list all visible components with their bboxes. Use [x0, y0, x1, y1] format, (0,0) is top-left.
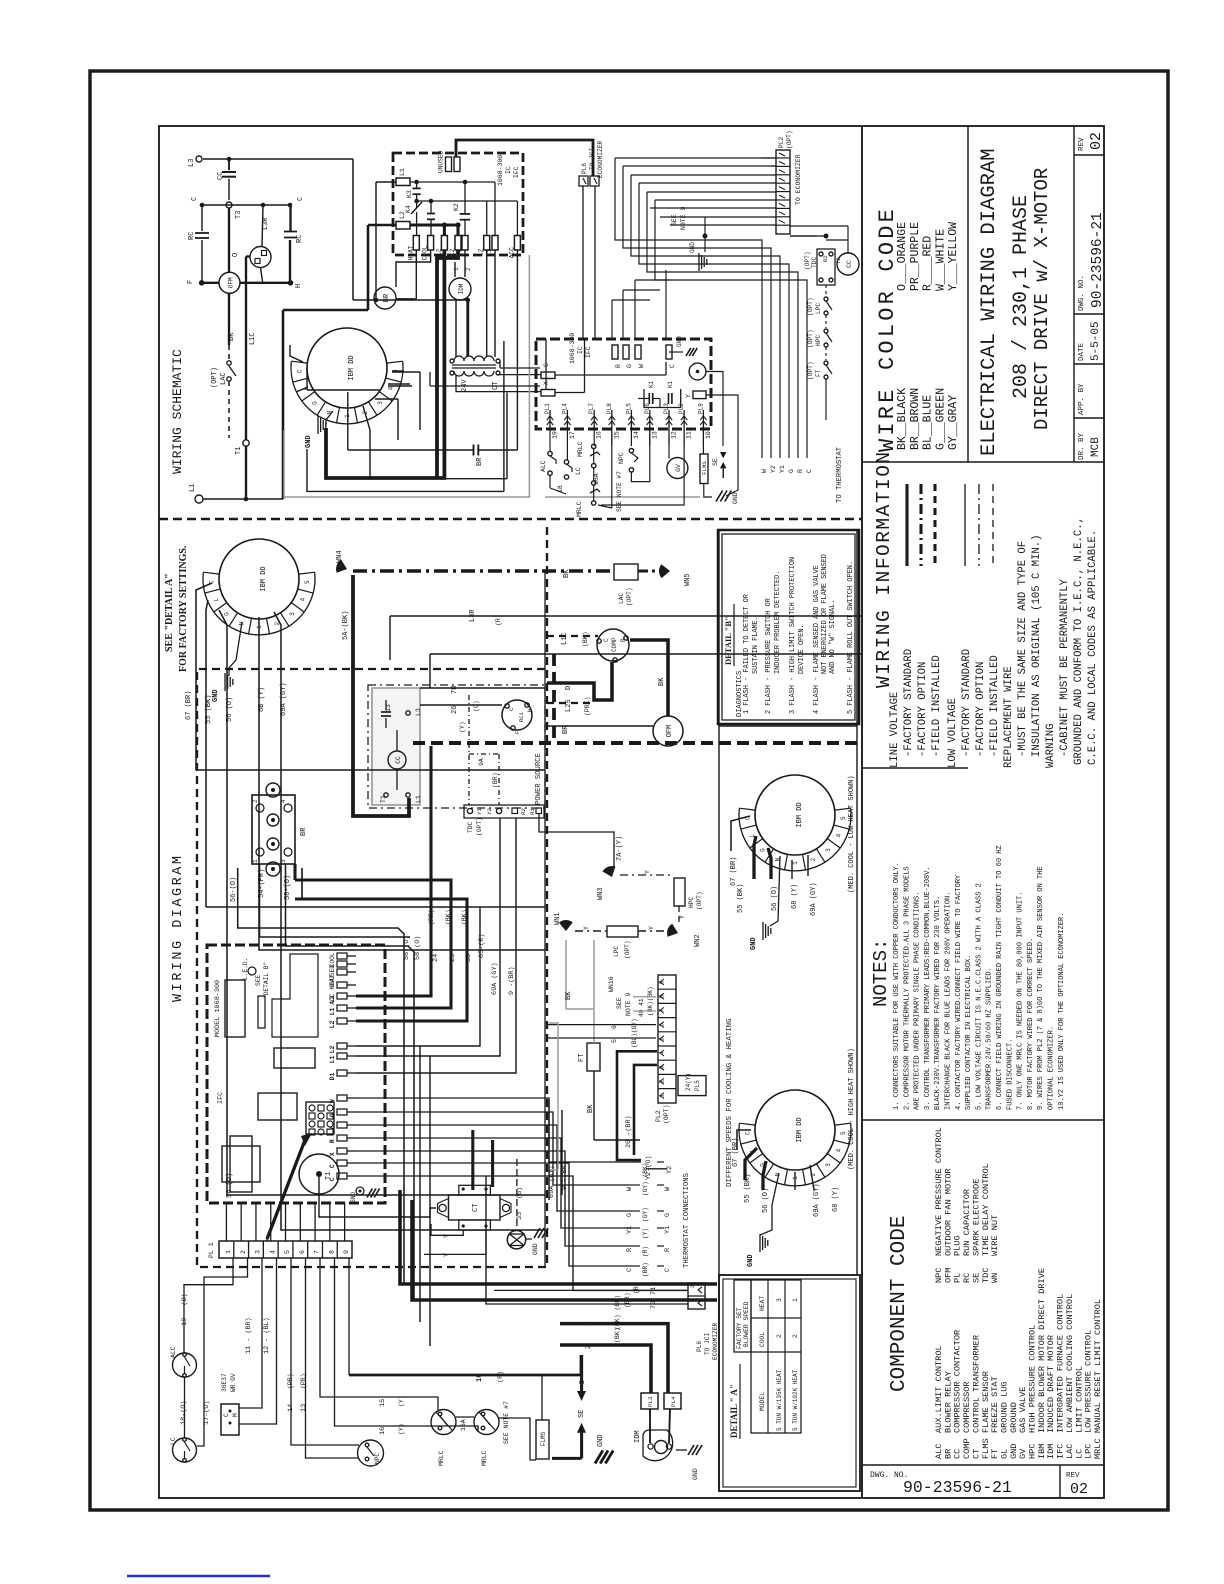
svg-text:W___WHITE: W___WHITE [934, 229, 947, 291]
motor leads (schematic) [290, 345, 303, 362]
svg-text:DWG. NO.: DWG. NO. [1078, 275, 1086, 311]
svg-text:9: 9 [343, 1250, 350, 1254]
plug PL6 TO JCI ECONOMIZER (diagram) [688, 1283, 705, 1309]
svg-text:GND: GND [689, 242, 696, 253]
svg-text:11: 11 [686, 431, 693, 439]
wires 40 41 gray [633, 996, 656, 998]
relay block on board [225, 980, 245, 1037]
legend sample: low voltage field installed [992, 484, 994, 566]
svg-text:WARNING: WARNING [1045, 723, 1057, 768]
wires to IDM [454, 262, 456, 277]
svg-text:L1: L1 [189, 484, 197, 492]
wire 9 from PL1 [348, 1258, 350, 1375]
spark electrode circle [689, 363, 706, 380]
svg-text:(R): (R) [497, 1371, 505, 1383]
svg-text:D1: D1 [329, 1072, 336, 1080]
CT wires Y [431, 1224, 463, 1235]
svg-text:24V: 24V [461, 379, 469, 392]
svg-text:FLMS: FLMS [701, 461, 708, 475]
wire motor row 491 [307, 449, 504, 491]
svg-text:BK: BK [658, 677, 666, 686]
svg-text:(OPT): (OPT) [807, 297, 814, 316]
detail A table grid [751, 1280, 801, 1433]
svg-text:M: M [232, 1413, 239, 1417]
title block: wire color code box divider [967, 126, 969, 462]
svg-text:70: 70 [650, 1301, 658, 1309]
arrow to connector [267, 1140, 305, 1239]
wire (R) run [430, 653, 862, 655]
svg-text:Y___YELLOW: Y___YELLOW [947, 222, 960, 291]
svg-text:FT: FT [578, 1054, 586, 1062]
svg-text:GND: GND [750, 937, 758, 950]
svg-text:X: X [329, 1152, 336, 1156]
svg-text:PL5: PL5 [694, 1080, 701, 1091]
wire to L2 fuse [367, 225, 370, 310]
title block cells: REV [1074, 154, 1104, 156]
dashed wire L2S (PRI) [547, 702, 594, 704]
svg-text:68 (Y): 68 (Y) [832, 1187, 840, 1212]
terminal L1 [195, 495, 203, 503]
wire 67 (BR) [196, 583, 212, 770]
IFC board spade terminal L2 [337, 1018, 347, 1024]
svg-text:BK: BK [565, 991, 573, 1000]
low pressure control LPC (OPT) diagram [575, 930, 607, 932]
svg-text:24: 24 [432, 954, 440, 962]
wire BR to OFM [547, 725, 653, 727]
svg-text:SEE: SEE [616, 997, 623, 1009]
svg-text:G: G [626, 1213, 634, 1217]
svg-text:3 FLASH - HIGH LIMIT SWITCH PR: 3 FLASH - HIGH LIMIT SWITCH PROTECTION [789, 557, 797, 714]
svg-text:GND: GND [532, 1243, 539, 1255]
svg-text:7. ONLY ONE MRLC IS NEEDED ON: 7. ONLY ONE MRLC IS NEEDED ON THE 80,000… [1017, 892, 1025, 1110]
svg-text:MRLC: MRLC [577, 441, 584, 457]
svg-text:5 FLASH - FLAME ROLL OUT SWITC: 5 FLASH - FLAME ROLL OUT SWITCH OPEN. [847, 561, 855, 714]
svg-text:3: 3 [659, 1065, 666, 1069]
svg-text:2: 2 [252, 799, 259, 803]
svg-text:WN: WN [990, 1273, 1000, 1283]
low pressure control LPC (OPT) [825, 285, 827, 296]
svg-text:GY__GRAY: GY__GRAY [947, 395, 960, 450]
svg-text:W: W [638, 364, 645, 368]
board terminal L2 [441, 236, 447, 251]
wires lv board to bottom components [545, 339, 547, 390]
svg-text:54-(PR): 54-(PR) [258, 869, 266, 898]
svg-text:3: 3 [255, 1250, 262, 1254]
svg-text:17-(O): 17-(O) [203, 1401, 211, 1425]
fuse L1 (board) [396, 178, 410, 186]
svg-text:1068-300: 1068-300 [497, 155, 504, 186]
svg-text:(OPT): (OPT) [663, 1104, 670, 1124]
svg-text:L3R: L3R [262, 217, 270, 230]
svg-text:C: C [669, 364, 676, 368]
IFC board spade terminal L2 [337, 993, 347, 999]
svg-text:16A: 16A [460, 1419, 467, 1431]
svg-text:RC: RC [296, 235, 304, 243]
terminal Y (lv board) [693, 391, 706, 399]
board terminal L1 [492, 236, 498, 251]
svg-text:7B: 7B [451, 686, 459, 694]
freeze stat FT (OPT) [825, 347, 827, 360]
svg-text:3: 3 [825, 848, 832, 852]
legend sample: line voltage factory standard [905, 484, 908, 566]
title block bottom line [862, 461, 1104, 463]
wire 58-(O) [286, 864, 415, 1300]
wire (Y) dashed [468, 695, 470, 805]
svg-text:K4: K4 [405, 205, 412, 213]
svg-text:MRLC: MRLC [438, 1450, 445, 1466]
relay coil BR (schematic) [374, 287, 396, 309]
svg-text:PL4: PL4 [670, 1396, 677, 1407]
detail B box [718, 530, 859, 724]
svg-text:REV: REV [1078, 137, 1086, 151]
svg-text:NOT ENERGIZED OR FLAME SENSED: NOT ENERGIZED OR FLAME SENSED [821, 554, 829, 674]
svg-text:2. COMPRESSOR MOTOR THERMALLY: 2. COMPRESSOR MOTOR THERMALLY PROTECTED.… [903, 866, 911, 1110]
svg-text:WIRING DIAGRAM: WIRING DIAGRAM [171, 854, 186, 1002]
svg-text:C: C [744, 1131, 751, 1135]
svg-text:G: G [223, 612, 230, 616]
svg-text:L1: L1 [329, 1007, 336, 1015]
svg-text:L1C: L1C [561, 632, 569, 645]
board 12-pin connector [306, 1102, 334, 1134]
svg-text:-FIELD INSTALLED: -FIELD INSTALLED [989, 655, 1001, 757]
legend sample: line voltage field installed [933, 484, 936, 566]
svg-text:COMPONENT CODE: COMPONENT CODE [888, 1216, 911, 1392]
factory set blower speed header box [734, 1280, 751, 1352]
spark electrode SE (diagram) [580, 1355, 583, 1391]
IFC board spade terminal X [337, 1148, 347, 1154]
economizer wires fan [762, 157, 776, 159]
svg-text:WIRING INFORMATION: WIRING INFORMATION [873, 450, 895, 688]
svg-text:PL2: PL2 [655, 1110, 662, 1122]
time delay control TDC (OPT) strip (diagram) [464, 805, 544, 818]
wire riser 25 (BK) bold [295, 880, 451, 1008]
wire 16 (Y) [335, 1258, 479, 1432]
svg-text:WIRE NUT: WIRE NUT [990, 1215, 1000, 1256]
svg-text:F: F [187, 280, 195, 284]
wire PL2 strip to TDC [790, 235, 817, 237]
freeze stat FT (diagram) [587, 1043, 600, 1071]
svg-text:GND: GND [692, 1468, 699, 1480]
svg-text:BLOWER SPEED: BLOWER SPEED [743, 1301, 750, 1347]
svg-text:SE: SE [578, 1410, 586, 1418]
wire L2 bold drop 1 [326, 250, 444, 478]
plug PL3 [641, 1393, 658, 1409]
wires 70 71 to PL6 [494, 1289, 688, 1291]
wire thermostat feed [356, 1176, 688, 1290]
svg-text:TO JCI: TO JCI [704, 1332, 711, 1355]
svg-text:C: C [296, 369, 303, 373]
svg-text:10.Y2 IS USED ONLY FOR THE OPT: 10.Y2 IS USED ONLY FOR THE OPTIONAL ECON… [1058, 913, 1066, 1110]
svg-text:(Y): (Y) [459, 721, 466, 733]
svg-text:3: 3 [280, 859, 287, 863]
svg-text:GND: GND [350, 1192, 357, 1203]
svg-text:(PRI): (PRI) [584, 696, 591, 716]
svg-text:3: 3 [776, 1298, 783, 1302]
svg-text:R2: R2 [822, 255, 829, 262]
svg-text:SEE NOTE #7: SEE NOTE #7 [503, 1401, 510, 1444]
svg-text:K3: K3 [406, 190, 413, 198]
wire 56-(O) from motor [238, 868, 404, 1284]
ground (IDM) [676, 1449, 687, 1451]
IFC board spade terminal R [337, 1135, 347, 1141]
svg-text:4: 4 [300, 597, 307, 601]
svg-text:PR__PURPLE: PR__PURPLE [909, 222, 922, 291]
dwg number strip box [862, 1464, 1104, 1466]
wire 26 (O) [420, 704, 502, 706]
gray economizer verticals [549, 1023, 558, 1170]
svg-text:55 (BK): 55 (BK) [744, 1174, 752, 1203]
svg-text:FLMS: FLMS [540, 1431, 547, 1446]
svg-text:G: G [788, 469, 795, 473]
svg-text:DR. BY: DR. BY [1078, 432, 1086, 460]
svg-text:NOTE 9: NOTE 9 [625, 992, 632, 1016]
svg-text:19: 19 [552, 431, 559, 439]
high pressure control HPC (OPT) [825, 315, 827, 328]
wire transformer feeds [466, 300, 469, 356]
svg-text:APP. BY: APP. BY [1078, 383, 1086, 415]
svg-text:7A-(Y): 7A-(Y) [616, 836, 624, 861]
svg-text:(O): (O) [473, 700, 480, 712]
transformer T1 (board) [299, 1154, 339, 1194]
bold wire D [547, 662, 612, 700]
svg-text:68 (Y): 68 (Y) [791, 884, 799, 909]
svg-text:Y1: Y1 [779, 465, 786, 473]
wire ACC drop to BR capacitor [516, 250, 518, 450]
svg-text:33: 33 [516, 1212, 524, 1220]
svg-text:LC: LC [170, 1437, 177, 1445]
divider: schematic / diagram (dashed) [159, 518, 862, 521]
wire riser 65-(R) [356, 907, 480, 1046]
svg-text:FOR FACTORY SETTINGS.: FOR FACTORY SETTINGS. [178, 545, 189, 672]
svg-text:(OPT): (OPT) [804, 251, 811, 270]
svg-text:TDC: TDC [811, 257, 818, 268]
lv board terminal C [666, 345, 672, 359]
terminal C (lv board) [541, 372, 555, 379]
svg-text:14: 14 [633, 431, 640, 439]
svg-text:IBM DD: IBM DD [260, 566, 268, 591]
svg-text:(BL)(GY): (BL)(GY) [631, 1018, 638, 1048]
svg-text:SUSTAIN FLAME.: SUSTAIN FLAME. [752, 616, 760, 674]
svg-text:1: 1 [792, 1298, 799, 1302]
svg-text:R: R [797, 469, 804, 473]
svg-text:OFM: OFM [666, 725, 674, 738]
compressor contactor CC coil (schematic) [837, 253, 859, 275]
title block cells: DATE [1074, 363, 1104, 365]
svg-text:Y2: Y2 [770, 465, 777, 473]
svg-text:19 - (O): 19 - (O) [181, 1293, 189, 1326]
svg-text:3: 3 [825, 1163, 832, 1167]
board terminal ACC [514, 236, 520, 251]
svg-text:4: 4 [269, 1250, 276, 1254]
svg-text:20 -(BR): 20 -(BR) [625, 1115, 633, 1148]
svg-text:IBM DD: IBM DD [348, 355, 356, 380]
svg-text:67 (BR): 67 (BR) [730, 857, 738, 886]
wire WN1 to FT gray [593, 940, 595, 1043]
svg-text:BL__BLUE: BL__BLUE [922, 395, 935, 450]
motor 3 stub wires [737, 1130, 751, 1150]
svg-text:69A (GY): 69A (GY) [280, 682, 288, 716]
bold field power dashed wire [413, 741, 862, 745]
wire transformer CT to C [498, 374, 541, 376]
svg-text:(G): (G) [516, 1187, 524, 1199]
svg-text:HPC: HPC [688, 897, 695, 908]
wire thermostat feed [356, 1163, 633, 1266]
svg-text:1068-300: 1068-300 [569, 333, 576, 364]
svg-text:OFM: OFM [228, 277, 235, 288]
ground (schematic motor) [317, 416, 319, 434]
svg-text:69A (GY): 69A (GY) [491, 962, 499, 995]
integrated furnace control board IFC (diagram) [207, 945, 385, 1203]
svg-text:COMP: COMP [611, 637, 618, 652]
legend sample: low voltage factory standard [964, 484, 966, 566]
svg-text:(Y): (Y) [642, 1228, 649, 1239]
legend sample: low voltage factory option [978, 484, 980, 566]
board bold L2 row [410, 223, 458, 226]
board terminal L2 [455, 236, 461, 251]
blower motor IBM DD (factory settings) [219, 539, 299, 619]
terminal X (lv board) [541, 390, 555, 397]
svg-text:5-5-05: 5-5-05 [1090, 321, 1102, 361]
wire riser 55 (BK) bold [295, 899, 467, 1021]
svg-text:(OPT): (OPT) [624, 940, 631, 959]
svg-text:INTERCHANGE BLACK FOR BLUE LEA: INTERCHANGE BLACK FOR BLUE LEADS FOR 208… [945, 892, 953, 1110]
svg-text:DATE: DATE [1078, 342, 1086, 361]
wire 7A-(Y) from TDC R1 [539, 814, 614, 868]
svg-text:8: 8 [659, 994, 666, 998]
wiring info / notes partial divider [862, 767, 968, 769]
plug PL1 strip [219, 1241, 352, 1258]
svg-text:T1: T1 [235, 447, 243, 455]
svg-text:1: 1 [659, 1094, 666, 1098]
blower motor IBM DD (schematic) [307, 328, 387, 408]
power source dash-dot boundary [368, 685, 545, 808]
IFC board spade terminal C [337, 1160, 347, 1166]
bold dashed riser [552, 654, 556, 743]
svg-text:Y1: Y1 [664, 1226, 672, 1234]
drawing inner frame [159, 126, 1104, 1498]
svg-text:FT: FT [815, 369, 822, 377]
svg-text:Y2: Y2 [486, 808, 493, 815]
svg-text:(BK): (BK) [582, 631, 589, 647]
svg-text:WN5: WN5 [684, 573, 692, 586]
svg-text:5 TON W/102K HEAT: 5 TON W/102K HEAT [792, 1369, 799, 1431]
svg-text:5: 5 [304, 580, 311, 584]
svg-text:O: O [232, 253, 240, 257]
svg-text:L2: L2 [478, 248, 485, 256]
title block divider [1073, 126, 1075, 462]
svg-text:7: 7 [659, 1008, 666, 1012]
wire 69A (GY) [274, 612, 545, 1230]
relay contact L3R [262, 205, 263, 246]
svg-text:1: 1 [792, 861, 799, 865]
svg-text:(GY): (GY) [642, 1207, 649, 1222]
svg-text:DETAIL " A": DETAIL " A" [729, 1384, 739, 1438]
wire horizontals upper [196, 769, 545, 771]
svg-text:WN4: WN4 [336, 550, 344, 563]
svg-text:5 TON W/135K HEAT: 5 TON W/135K HEAT [776, 1369, 783, 1431]
svg-text:13: 13 [300, 1404, 308, 1412]
detail A box outer [719, 1275, 860, 1491]
svg-text:6: 6 [611, 1025, 618, 1029]
IFC board spade terminal UNUSED [337, 969, 347, 975]
svg-text:IBM DD: IBM DD [796, 802, 804, 827]
plug PL4 [664, 1393, 681, 1409]
svg-text:SEE: SEE [255, 975, 262, 986]
svg-text:(BR): (BR) [642, 1262, 649, 1277]
lv board terminal W [635, 345, 641, 359]
svg-text:5A-(BK): 5A-(BK) [342, 611, 350, 640]
svg-text:BR: BR [300, 827, 308, 836]
flame sensor FLMS (diagram) [536, 1420, 549, 1459]
svg-text:INDUCER PROBLEM DETECTED.: INDUCER PROBLEM DETECTED. [774, 571, 782, 674]
wire L1C (BK) dashed to compressor [547, 635, 598, 637]
svg-text:4: 4 [659, 1051, 666, 1055]
svg-text:G: G [759, 848, 766, 852]
wire L1 riser [282, 310, 285, 499]
svg-text:18-(O): 18-(O) [180, 1401, 188, 1425]
wire along cabinet [544, 571, 546, 1267]
svg-text:PL 1: PL 1 [208, 1242, 215, 1258]
wire transformer to X [456, 375, 541, 392]
svg-text:L2: L2 [329, 1020, 336, 1028]
svg-text:INSULATION AS ORIGINAL (105 C: INSULATION AS ORIGINAL (105 C MIN.) [1031, 534, 1043, 757]
svg-text:MANUAL RESET LIMIT CONTROL: MANUAL RESET LIMIT CONTROL [1093, 1299, 1103, 1433]
IFC board spade terminal Y [337, 1122, 347, 1128]
ground (diagram motor 1) [224, 673, 226, 691]
svg-text:-FACTORY STANDARD: -FACTORY STANDARD [903, 649, 915, 757]
wire nut WN4 [336, 560, 347, 573]
svg-text:MODEL 1068-300: MODEL 1068-300 [214, 980, 222, 1037]
svg-text:12: 12 [671, 431, 678, 439]
svg-text:IDM: IDM [458, 283, 465, 294]
svg-text:-CABINET MUST BE PERMANENTLY: -CABINET MUST BE PERMANENTLY [1059, 578, 1071, 757]
economizer terminal strip WN10 [658, 975, 676, 1103]
svg-text:WN3: WN3 [597, 887, 605, 900]
svg-text:9: 9 [659, 980, 666, 984]
svg-text:(Y): (Y) [398, 1395, 405, 1407]
svg-text:NOTES:: NOTES: [870, 939, 892, 1007]
svg-text:C: C [191, 197, 199, 201]
wire WN1 drop [566, 940, 594, 1009]
wire 55 (BK) [206, 600, 208, 907]
svg-text:GND: GND [212, 689, 220, 702]
svg-text:Y: Y [685, 394, 692, 398]
fuse L2 (board) [396, 222, 410, 230]
svg-text:56 (O): 56 (O) [226, 697, 234, 722]
wire thermostat feed [356, 1098, 641, 1162]
svg-text:ALC: ALC [170, 1346, 177, 1358]
svg-text:65-(R): 65-(R) [478, 934, 486, 958]
negative pressure control NPC (diagram) [358, 1440, 384, 1466]
PL1 risers to board [225, 1203, 227, 1241]
svg-text:-FACTORY OPTION: -FACTORY OPTION [917, 662, 929, 757]
svg-text:T1: T1 [380, 795, 387, 803]
svg-text:5: 5 [659, 1037, 666, 1041]
gray economizer wire (schematic) [284, 255, 529, 497]
svg-text:G: G [329, 1113, 336, 1117]
board rect 2 [274, 1048, 315, 1068]
wire 19-(O) [184, 1258, 233, 1353]
svg-text:(Y): (Y) [398, 1423, 405, 1435]
svg-text:10: 10 [476, 1374, 484, 1382]
svg-text:R: R [664, 1248, 672, 1252]
svg-text:L3R: L3R [469, 609, 477, 622]
svg-text:G___GREEN: G___GREEN [934, 388, 947, 450]
divider: main area / right column [861, 126, 863, 1498]
legend sample: line voltage factory option [919, 484, 922, 566]
svg-text:HPC: HPC [815, 335, 822, 346]
svg-text:8. MOTOR FACTORY WIRED FOR COR: 8. MOTOR FACTORY WIRED FOR CORRECT SPEED… [1027, 938, 1035, 1110]
